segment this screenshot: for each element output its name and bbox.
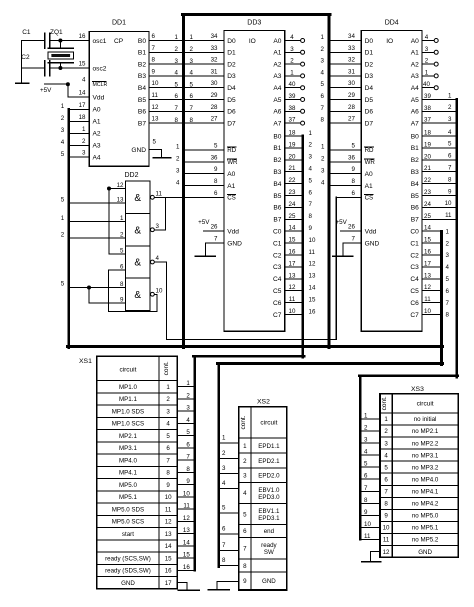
svg-text:17: 17 <box>289 260 296 267</box>
NAND gate DD2.1 <box>117 181 163 311</box>
svg-text:A2: A2 <box>273 61 281 68</box>
svg-text:20: 20 <box>289 153 296 160</box>
svg-text:D2: D2 <box>365 61 374 68</box>
svg-text:6: 6 <box>448 153 452 160</box>
svg-text:4: 4 <box>364 449 368 456</box>
svg-text:A3: A3 <box>411 73 419 80</box>
svg-text:29: 29 <box>348 92 355 99</box>
svg-text:2: 2 <box>290 58 294 65</box>
svg-text:15: 15 <box>183 552 190 559</box>
svg-text:5: 5 <box>61 281 65 288</box>
svg-text:B0: B0 <box>411 133 419 140</box>
svg-text:3: 3 <box>448 116 452 123</box>
wire XS1 contact 2 net 2 <box>177 392 195 399</box>
svg-text:12: 12 <box>165 519 172 526</box>
wire DD3 output C6 pin 11 net 15 <box>285 296 316 303</box>
svg-text:no MP4.0: no MP4.0 <box>412 476 439 483</box>
svg-text:2: 2 <box>243 458 247 465</box>
svg-text:39: 39 <box>424 93 431 100</box>
svg-text:A6: A6 <box>273 109 281 116</box>
svg-text:19: 19 <box>289 141 296 148</box>
svg-text:15: 15 <box>79 61 86 68</box>
wire DD4.C4 pin 13 net 5 <box>422 272 450 283</box>
connector XS1 <box>79 356 177 589</box>
svg-text:MP4.0: MP4.0 <box>119 457 137 464</box>
wire data bus bit 1: DD1.B0 to DD3.D0 <box>149 33 224 41</box>
svg-text:1: 1 <box>176 144 180 151</box>
wire data bus bit 1 to DD4.D0 <box>329 33 361 41</box>
svg-text:3: 3 <box>425 46 429 53</box>
svg-text:C6: C6 <box>410 300 419 307</box>
svg-text:EPD3.1: EPD3.1 <box>258 515 280 522</box>
svg-text:2: 2 <box>321 156 325 163</box>
svg-text:no MP5.0: no MP5.0 <box>412 513 439 520</box>
svg-text:ready (SCS,SW): ready (SCS,SW) <box>105 555 151 562</box>
wire DD1.A1 to left bus, net 2 <box>61 114 89 122</box>
svg-text:16: 16 <box>79 33 86 40</box>
wire XS2 contact 4 net 4 <box>219 480 239 489</box>
svg-text:B0: B0 <box>138 38 146 45</box>
svg-text:19: 19 <box>424 141 431 148</box>
svg-text:EPD2.0: EPD2.0 <box>258 472 280 479</box>
svg-text:5: 5 <box>243 511 247 518</box>
svg-text:no MP5.1: no MP5.1 <box>412 525 439 532</box>
wire data bus bit 6 to DD4.D5 <box>329 92 361 100</box>
svg-text:B2: B2 <box>273 157 281 164</box>
svg-text:8: 8 <box>166 470 170 477</box>
wire DD2 out11 to DD3 CS <box>154 196 224 198</box>
wire DD4.B0 pin 18 net 4 <box>422 129 457 137</box>
svg-text:MP5.1: MP5.1 <box>119 494 137 501</box>
svg-text:11: 11 <box>183 503 190 510</box>
svg-text:no MP4.1: no MP4.1 <box>412 488 439 495</box>
svg-text:6: 6 <box>190 93 194 100</box>
svg-text:16: 16 <box>183 564 190 571</box>
svg-text:10: 10 <box>289 308 296 315</box>
wire DD4.A7 pin 37 net 3 <box>422 116 457 124</box>
DD3.A4 output pin 40 open <box>285 81 325 90</box>
wire XS3 contact 9 net 9 <box>360 509 380 516</box>
wire DD4.C5 pin 12 net 6 <box>422 284 450 295</box>
wire DD1.A3 to left bus, net 4 <box>61 138 89 146</box>
svg-text:7: 7 <box>448 165 452 172</box>
svg-text:7: 7 <box>222 542 226 549</box>
svg-text:D7: D7 <box>365 120 374 127</box>
svg-text:3: 3 <box>186 405 190 412</box>
svg-text:40: 40 <box>423 81 430 88</box>
svg-text:3: 3 <box>175 58 179 65</box>
svg-text:1: 1 <box>190 34 194 41</box>
svg-text:4: 4 <box>384 452 388 459</box>
wire DD4.C6 pin 11 net 7 <box>422 296 450 307</box>
svg-text:DD4: DD4 <box>385 20 399 27</box>
svg-text:9: 9 <box>384 513 388 520</box>
svg-text:GND: GND <box>365 240 380 247</box>
svg-text:4: 4 <box>321 179 325 186</box>
bus DD3 outputs collector <box>302 136 305 357</box>
svg-text:B7: B7 <box>273 217 281 224</box>
svg-text:3: 3 <box>446 252 450 259</box>
bus main horizontal group line <box>67 345 442 348</box>
wire DD3 output B7 pin 25 net 8 <box>285 213 313 220</box>
svg-text:D6: D6 <box>365 109 374 116</box>
svg-text:6: 6 <box>214 190 218 197</box>
svg-text:3: 3 <box>364 437 368 444</box>
svg-text:A5: A5 <box>273 97 281 104</box>
svg-text:4: 4 <box>82 77 86 84</box>
svg-text:2: 2 <box>186 392 190 399</box>
svg-text:no MP2.2: no MP2.2 <box>412 440 439 447</box>
svg-text:C2: C2 <box>410 252 419 259</box>
svg-text:start: start <box>122 531 134 538</box>
svg-text:11: 11 <box>309 249 316 256</box>
svg-text:5: 5 <box>321 81 325 88</box>
svg-text:5: 5 <box>166 433 170 440</box>
svg-text:2: 2 <box>190 46 194 53</box>
svg-text:6: 6 <box>309 189 313 196</box>
svg-text:8: 8 <box>190 117 194 124</box>
wire XS1 contact 8 net 8 <box>177 466 195 473</box>
svg-text:XS2: XS2 <box>257 398 270 405</box>
wire data bus bit 7: DD1.B6 to DD3.D6 <box>149 104 224 112</box>
svg-text:15: 15 <box>165 555 172 562</box>
wire DD2 pin 12 tie <box>107 187 126 255</box>
svg-text:7: 7 <box>166 457 170 464</box>
junction node osc2 <box>58 66 62 70</box>
svg-text:1: 1 <box>61 103 65 110</box>
svg-text:MP1.0: MP1.0 <box>119 384 137 391</box>
svg-text:5: 5 <box>364 461 368 468</box>
DD4 CS pin 6 label <box>351 190 355 197</box>
svg-text:12: 12 <box>309 261 316 268</box>
svg-text:A7: A7 <box>273 120 281 127</box>
svg-text:&: & <box>134 193 141 204</box>
wire data bus bit 4 to DD4.D3 <box>329 68 361 76</box>
svg-text:10: 10 <box>424 308 431 315</box>
svg-text:RD: RD <box>365 147 374 154</box>
svg-text:1: 1 <box>309 130 313 137</box>
wire XS1 contact 10 net 10 <box>177 490 195 497</box>
wire XS2 contact 6 net 6 <box>219 526 239 535</box>
wire DD4.A6 pin 38 net 2 <box>422 104 457 112</box>
wire XS1 contact 4 net 4 <box>177 417 195 424</box>
svg-text:4: 4 <box>222 480 226 487</box>
DD4.A4 output pin 40 open <box>422 81 438 90</box>
svg-text:DD2: DD2 <box>125 172 139 179</box>
svg-text:A0: A0 <box>411 38 419 45</box>
svg-text:A0: A0 <box>273 38 281 45</box>
wire XS2 GND to ground <box>208 581 239 589</box>
wire DD4.C1 pin 15 net 2 <box>422 237 450 248</box>
wire DD4.B3 pin 21 net 7 <box>422 165 457 173</box>
wire DD4.C2 pin 16 net 3 <box>422 249 450 260</box>
svg-text:13: 13 <box>424 272 431 279</box>
svg-text:MP5.0 SDS: MP5.0 SDS <box>112 506 144 513</box>
svg-text:2: 2 <box>61 115 65 122</box>
microcontroller DD1 <box>89 20 149 167</box>
wire XS1 contact 1 net 1 <box>177 380 195 387</box>
svg-text:B5: B5 <box>273 193 281 200</box>
svg-text:no MP2.1: no MP2.1 <box>412 428 439 435</box>
svg-text:18: 18 <box>424 130 431 137</box>
wire DD4.B5 pin 23 net 9 <box>422 188 457 196</box>
svg-text:MP3.1: MP3.1 <box>119 445 137 452</box>
wire net 1 to DD2 pin 1 <box>61 215 126 222</box>
bus DD4 A5-B7 collector to XS3 <box>455 100 458 378</box>
svg-text:37: 37 <box>289 117 296 124</box>
svg-text:Vdd: Vdd <box>93 94 105 101</box>
svg-text:C3: C3 <box>410 264 419 271</box>
svg-text:21: 21 <box>289 165 296 172</box>
svg-text:B4: B4 <box>411 181 419 188</box>
svg-text:37: 37 <box>424 117 431 124</box>
wire XS3 contact 1 net 1 <box>360 412 380 419</box>
svg-text:C1: C1 <box>22 29 31 36</box>
svg-text:7: 7 <box>364 485 368 492</box>
svg-text:5: 5 <box>384 464 388 471</box>
svg-text:6: 6 <box>152 33 156 40</box>
wire XS3 contact 7 net 7 <box>360 485 380 492</box>
svg-text:B3: B3 <box>411 169 419 176</box>
svg-text:circuit: circuit <box>119 367 136 374</box>
svg-text:CS: CS <box>365 194 374 201</box>
svg-text:end: end <box>264 528 275 535</box>
wire DD3 output C0 pin 14 net 9 <box>285 225 313 232</box>
svg-text:12: 12 <box>289 284 296 291</box>
svg-text:1: 1 <box>321 144 325 151</box>
svg-text:3: 3 <box>156 223 160 230</box>
svg-text:D4: D4 <box>365 85 374 92</box>
svg-text:39: 39 <box>289 93 296 100</box>
svg-text:18: 18 <box>79 114 86 121</box>
svg-text:8: 8 <box>243 563 247 570</box>
svg-text:EBV1.0: EBV1.0 <box>258 487 280 494</box>
connector XS2 <box>239 398 287 590</box>
wire DD3 output C3 pin 17 net 12 <box>285 260 316 267</box>
svg-text:B4: B4 <box>273 181 281 188</box>
svg-text:10: 10 <box>183 490 190 497</box>
svg-text:2: 2 <box>175 46 179 53</box>
wire DD3 output B2 pin 20 net 3 <box>285 153 313 160</box>
svg-text:+5V: +5V <box>40 87 52 94</box>
svg-text:MP1.0 SDS: MP1.0 SDS <box>112 408 144 415</box>
svg-text:8: 8 <box>222 557 226 564</box>
svg-text:2: 2 <box>384 428 388 435</box>
wire XS3 GND to ground <box>362 551 381 561</box>
svg-text:8: 8 <box>351 178 355 185</box>
svg-text:33: 33 <box>348 45 355 52</box>
svg-text:1: 1 <box>384 416 388 423</box>
wire data bus bit 5 to DD4.D4 <box>329 80 361 88</box>
svg-text:7: 7 <box>446 300 450 307</box>
svg-text:4: 4 <box>243 490 247 497</box>
svg-text:5: 5 <box>175 81 179 88</box>
wire DD4.C0 pin 14 net 1 <box>422 225 450 236</box>
svg-text:38: 38 <box>289 105 296 112</box>
svg-text:MP1.1: MP1.1 <box>119 396 137 403</box>
svg-text:GND: GND <box>262 578 276 585</box>
wire XS2 contact 3 net 3 <box>219 465 239 474</box>
svg-text:4: 4 <box>156 255 160 262</box>
svg-text:B4: B4 <box>138 85 146 92</box>
svg-text:13: 13 <box>183 527 190 534</box>
bus DD4 C outputs collector to XS2 <box>440 231 443 365</box>
svg-text:no MP3.2: no MP3.2 <box>412 464 439 471</box>
svg-text:A1: A1 <box>411 50 419 57</box>
svg-text:24: 24 <box>289 201 296 208</box>
svg-text:Vdd: Vdd <box>365 229 377 236</box>
svg-text:SW: SW <box>264 549 274 556</box>
wire XS1 contact 13 net 13 <box>177 527 195 534</box>
svg-text:8: 8 <box>448 176 452 183</box>
svg-text:12: 12 <box>383 549 390 556</box>
svg-text:D5: D5 <box>227 97 236 104</box>
svg-text:8: 8 <box>384 501 388 508</box>
svg-text:27: 27 <box>348 116 355 123</box>
svg-text:no MP3.1: no MP3.1 <box>412 452 439 459</box>
wire DD4.C3 pin 17 net 4 <box>422 260 450 271</box>
svg-text:4: 4 <box>175 70 179 77</box>
svg-text:22: 22 <box>424 177 431 184</box>
wire DD4.B6 pin 24 net 10 <box>422 200 457 208</box>
wire DD1.A0 to left bus, net 1 <box>61 102 89 110</box>
DD3 Vdd pin 26 +5V <box>198 219 224 231</box>
wire DD3 output C7 pin 10 net 16 <box>285 308 316 315</box>
svg-text:12: 12 <box>424 284 431 291</box>
svg-text:D2: D2 <box>227 61 236 68</box>
wire XS1 contact 5 net 5 <box>177 429 195 436</box>
svg-text:C3: C3 <box>273 264 282 271</box>
svg-text:25: 25 <box>424 213 431 220</box>
svg-text:11: 11 <box>445 212 452 219</box>
svg-text:13: 13 <box>289 272 296 279</box>
DD3.A2 output pin 2 open <box>285 58 325 67</box>
I/O expander DD3 <box>224 20 285 332</box>
wire data bus bit 2: DD1.B1 to DD3.D1 <box>149 45 224 53</box>
svg-text:B6: B6 <box>138 109 146 116</box>
svg-text:5: 5 <box>61 196 65 203</box>
wire DD3 output C2 pin 16 net 11 <box>285 249 316 256</box>
svg-text:IO: IO <box>249 38 256 45</box>
svg-text:13: 13 <box>309 273 316 280</box>
svg-text:Vdd: Vdd <box>227 229 239 236</box>
wire DD4.A5 pin 39 net 1 <box>422 92 457 100</box>
svg-text:14: 14 <box>309 285 316 292</box>
svg-text:C5: C5 <box>273 288 282 295</box>
svg-text:17: 17 <box>424 260 431 267</box>
svg-text:11: 11 <box>289 296 296 303</box>
DD3.A5 output pin 39 open <box>285 93 325 102</box>
svg-text:4: 4 <box>448 129 452 136</box>
svg-text:1: 1 <box>61 215 65 222</box>
wire DD3 output C1 pin 15 net 10 <box>285 237 316 244</box>
svg-text:1: 1 <box>448 92 452 99</box>
svg-text:4: 4 <box>309 166 313 173</box>
DD1 pin 15 osc2 <box>79 61 86 68</box>
wire DD3.A1 control net 4 <box>176 178 224 186</box>
svg-text:A3: A3 <box>93 143 101 150</box>
wire XS2 contact 7 net 7 <box>219 542 239 551</box>
wire XS3 contact 5 net 5 <box>360 461 380 468</box>
svg-text:B5: B5 <box>138 97 146 104</box>
wire data bus bit 8 to DD4.D7 <box>329 116 361 124</box>
svg-text:13: 13 <box>165 531 172 538</box>
svg-text:C2: C2 <box>273 252 282 259</box>
svg-text:8: 8 <box>186 466 190 473</box>
svg-text:1: 1 <box>186 380 190 387</box>
DD3 CS pin 6 label <box>214 190 218 197</box>
DD1 pin 16 osc1 <box>79 33 86 40</box>
wire DD3 output B1 pin 19 net 2 <box>285 141 313 148</box>
DD3.A1 output pin 3 open <box>285 46 325 55</box>
svg-text:MP5.0: MP5.0 <box>119 482 137 489</box>
svg-text:14: 14 <box>183 539 190 546</box>
junction node osc1 <box>58 39 62 43</box>
svg-text:B2: B2 <box>411 157 419 164</box>
wire XS1 contact 3 net 3 <box>177 405 195 412</box>
wire data bus bit 5: DD1.B4 to DD3.D4 <box>149 80 224 88</box>
NAND gate DD2.3 <box>120 246 159 271</box>
svg-text:2: 2 <box>321 46 325 53</box>
svg-text:B2: B2 <box>138 61 146 68</box>
svg-text:MP5.0 SCS: MP5.0 SCS <box>112 519 144 526</box>
NAND gate DD2.2 <box>120 214 159 239</box>
bus XS2 horizontal <box>217 362 442 365</box>
svg-text:10: 10 <box>309 237 316 244</box>
svg-text:3: 3 <box>176 168 180 175</box>
svg-text:3: 3 <box>190 58 194 65</box>
wire XS1 GND to ground <box>177 583 199 591</box>
svg-text:5: 5 <box>186 429 190 436</box>
svg-text:5: 5 <box>153 139 157 146</box>
svg-text:B1: B1 <box>273 145 281 152</box>
wire rail to DD2 pin 5 <box>109 253 126 255</box>
svg-text:6: 6 <box>175 93 179 100</box>
wire data bus bit 3 to DD4.D2 <box>329 57 361 65</box>
svg-text:9: 9 <box>186 478 190 485</box>
svg-text:D0: D0 <box>227 38 236 45</box>
svg-text:10: 10 <box>445 200 452 207</box>
svg-text:WR: WR <box>365 159 376 166</box>
bus box around DD3 top <box>182 13 330 16</box>
svg-text:3: 3 <box>321 58 325 65</box>
+5V supply <box>40 82 89 97</box>
svg-text:33: 33 <box>211 45 218 52</box>
svg-text:5: 5 <box>309 177 313 184</box>
svg-text:EPD1.1: EPD1.1 <box>258 443 280 450</box>
DD4.A2 output pin 2 open <box>422 58 438 67</box>
svg-text:25: 25 <box>289 213 296 220</box>
svg-text:D0: D0 <box>365 38 374 45</box>
svg-text:3: 3 <box>222 465 226 472</box>
svg-text:B1: B1 <box>411 145 419 152</box>
svg-text:14: 14 <box>165 543 172 550</box>
wire DD3.WR control net 2 <box>176 154 224 162</box>
wire XS1 contact 7 net 7 <box>177 454 195 461</box>
svg-text:B7: B7 <box>411 217 419 224</box>
svg-text:7: 7 <box>186 454 190 461</box>
svg-text:21: 21 <box>424 165 431 172</box>
svg-text:11: 11 <box>383 537 390 544</box>
svg-text:no initial: no initial <box>414 416 437 423</box>
svg-text:CP: CP <box>114 38 124 45</box>
svg-text:C4: C4 <box>410 276 419 283</box>
svg-text:11: 11 <box>364 533 371 540</box>
svg-text:15: 15 <box>309 296 316 303</box>
svg-text:C7: C7 <box>410 312 419 319</box>
wire XS3 contact 2 net 2 <box>360 424 380 431</box>
DD1 GND pin 5 to ground <box>149 139 171 158</box>
